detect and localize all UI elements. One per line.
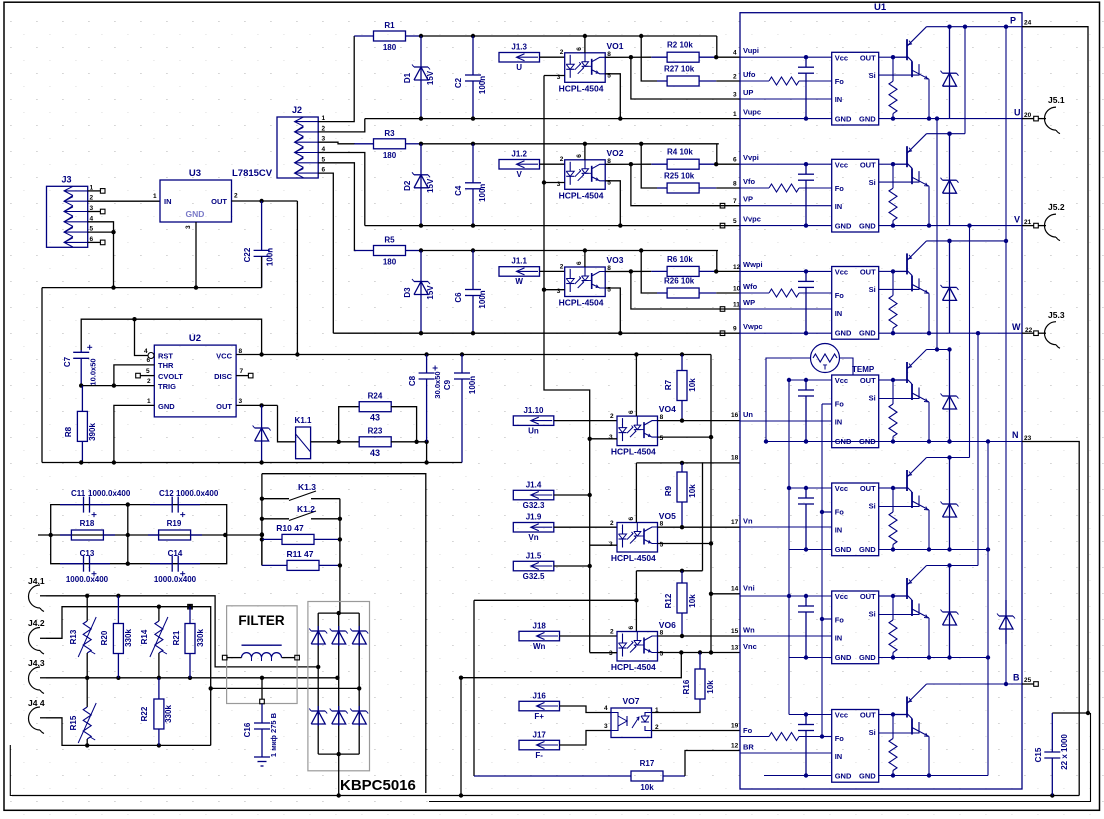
relay contact K1.3 <box>260 474 340 566</box>
wire R1 rail <box>419 34 717 38</box>
+15 chain vertical to opto pins 5 <box>709 355 713 653</box>
svg-text:180: 180 <box>383 258 397 267</box>
connector J3 <box>47 174 88 247</box>
svg-text:IN: IN <box>835 752 843 761</box>
svg-text:OUT: OUT <box>860 268 876 277</box>
svg-text:43: 43 <box>370 448 380 458</box>
svg-text:R6 10k: R6 10k <box>667 255 693 264</box>
regulator U3 L7815CV <box>153 168 273 229</box>
svg-text:Fo: Fo <box>835 508 845 517</box>
freewheel diode row W <box>941 239 959 334</box>
net labels lower rows <box>743 410 757 752</box>
svg-text:19: 19 <box>731 723 739 730</box>
wire J1.4 to chain <box>554 494 590 496</box>
svg-text:C6: C6 <box>454 292 463 303</box>
svg-text:J1.4: J1.4 <box>526 480 542 489</box>
svg-text:HCPL-4504: HCPL-4504 <box>611 447 656 457</box>
wire J3 pin2 to U3 IN <box>88 200 160 202</box>
svg-text:C22: C22 <box>243 247 252 262</box>
svg-text:10k: 10k <box>688 378 697 392</box>
svg-text:2: 2 <box>610 413 614 420</box>
svg-text:K1.3: K1.3 <box>298 482 316 492</box>
svg-text:THR: THR <box>158 361 174 370</box>
svg-text:C4: C4 <box>454 185 463 196</box>
terminal pad on U1 input line <box>720 203 725 208</box>
svg-text:IN: IN <box>835 634 843 643</box>
svg-text:R4 10k: R4 10k <box>667 148 693 157</box>
decoupling capacitor row V <box>798 164 814 225</box>
wire VO2 pin6 to rail <box>584 144 586 160</box>
driver OUT to gate row 7 (brake) <box>879 712 896 716</box>
svg-text:10k: 10k <box>688 594 697 608</box>
svg-text:R19: R19 <box>167 519 182 528</box>
svg-text:3: 3 <box>609 650 613 657</box>
svg-text:IN: IN <box>835 202 843 211</box>
svg-text:GND: GND <box>158 402 175 411</box>
svg-text:J1.2: J1.2 <box>511 150 527 159</box>
svg-text:OUT: OUT <box>211 197 227 206</box>
N chain vertical to lower driver grounds <box>986 442 990 776</box>
resistor R12 10k <box>664 571 697 636</box>
gate driver block row 5 (V low) <box>832 483 879 556</box>
connector J2 <box>277 105 318 178</box>
svg-text:100n: 100n <box>266 248 275 266</box>
svg-text:C14: C14 <box>168 549 183 558</box>
Si sense wire row W <box>879 278 919 289</box>
wire J2 pin3 to R3 <box>318 142 355 144</box>
svg-text:VO6: VO6 <box>659 620 676 630</box>
Si wire row 6 (W low) <box>879 604 919 615</box>
wire VO1 pin6 to rail <box>584 36 586 53</box>
svg-text:Vvpi: Vvpi <box>743 153 759 162</box>
wire U3 OUT to +15V node <box>232 199 298 203</box>
resistor R24 43 <box>339 392 417 442</box>
svg-text:2: 2 <box>560 263 564 270</box>
svg-text:5: 5 <box>733 218 737 225</box>
wire U3 GND pin3 to ground bus <box>195 222 197 288</box>
jumper J1.9 <box>513 513 554 543</box>
optocoupler VO5 HCPL-4504 <box>609 511 676 563</box>
freewheel diode row 5 (V low) <box>941 458 959 552</box>
driver OUT to gate row 6 (W low) <box>879 594 896 598</box>
wire J3 pin5 to ground bus <box>88 230 116 288</box>
svg-text:18: 18 <box>731 455 739 462</box>
svg-text:R25 10k: R25 10k <box>664 172 695 181</box>
terminal pad on U1 input line <box>720 331 725 336</box>
svg-text:Vfo: Vfo <box>743 177 756 186</box>
svg-text:6: 6 <box>576 47 583 51</box>
wire rail corner to R4 right <box>714 144 740 167</box>
capacitor C11 1000.0x400 <box>60 489 131 517</box>
phase output line row V <box>879 225 1022 227</box>
svg-text:J4.1: J4.1 <box>28 576 45 586</box>
svg-text:Wwpi: Wwpi <box>743 260 763 269</box>
svg-text:100n: 100n <box>468 376 477 394</box>
thermistor R13 <box>69 596 96 678</box>
wire J1.5 to chain <box>554 565 590 567</box>
svg-text:J17: J17 <box>533 730 547 739</box>
svg-text:14: 14 <box>731 586 739 593</box>
channel return bus <box>365 223 740 227</box>
svg-text:R1: R1 <box>384 21 395 30</box>
svg-text:RST: RST <box>158 352 173 361</box>
wire J2 pin6 to W channel return bus <box>318 173 333 333</box>
svg-text:P: P <box>1010 16 1016 26</box>
svg-text:Vcc: Vcc <box>835 268 848 277</box>
IGBT row V <box>893 134 929 187</box>
zener diode D1 15V <box>403 36 435 119</box>
pin 6 of J3 <box>88 236 105 245</box>
svg-text:R13: R13 <box>69 629 78 644</box>
svg-text:3: 3 <box>185 225 192 229</box>
svg-text:16: 16 <box>731 412 739 419</box>
DC minus bus wire along bottom <box>12 793 1079 797</box>
svg-text:C16: C16 <box>243 722 252 737</box>
emitter wire row 6 (W low) <box>927 618 931 660</box>
svg-text:C7: C7 <box>63 356 72 367</box>
B rail wire <box>927 673 1039 687</box>
driver row W input wires <box>740 269 832 335</box>
svg-text:4: 4 <box>733 50 737 57</box>
svg-text:Un: Un <box>743 410 753 419</box>
emitter wire row V <box>927 186 931 228</box>
resistor R19 <box>148 519 202 540</box>
svg-text:R22: R22 <box>140 706 149 721</box>
bridge column 2 diodes <box>338 613 340 754</box>
wire left loop to VO6 pin6 <box>474 571 636 632</box>
freewheel diode row V <box>941 132 959 226</box>
wire J2 pin1 to R1 <box>318 36 354 122</box>
brake freewheel diode <box>997 600 1015 644</box>
net labels row V <box>743 153 761 224</box>
svg-text:R2 10k: R2 10k <box>667 41 693 50</box>
optocoupler VO6 HCPL-4504 <box>609 620 676 672</box>
net labels row U <box>743 46 761 117</box>
resistor R18 <box>60 519 115 540</box>
svg-text:HCPL-4504: HCPL-4504 <box>559 190 604 200</box>
optocoupler VO4 HCPL-4504 <box>609 404 676 457</box>
svg-text:R27 10k: R27 10k <box>664 65 695 74</box>
svg-text:2: 2 <box>560 156 564 163</box>
svg-text:T: T <box>823 365 828 372</box>
driver OUT to IGBT gate row W <box>879 269 896 273</box>
svg-text:R26 10k: R26 10k <box>664 277 695 286</box>
svg-text:R3: R3 <box>384 129 395 138</box>
svg-text:CVOLT: CVOLT <box>158 372 183 381</box>
svg-text:J1.9: J1.9 <box>526 513 542 522</box>
svg-text:N: N <box>1012 430 1019 440</box>
wire R25 chain <box>641 144 740 188</box>
svg-text:U1: U1 <box>874 2 887 13</box>
svg-text:1: 1 <box>147 398 151 405</box>
svg-text:D3: D3 <box>403 287 412 298</box>
wire VO1 pin8 to R2 <box>605 55 651 59</box>
P feed to W top IGBT and brake diode <box>927 27 1009 684</box>
svg-text:C13: C13 <box>80 549 95 558</box>
svg-text:C12: C12 <box>159 489 174 498</box>
wire J1.10 to VO4 <box>554 413 617 421</box>
svg-text:IN: IN <box>164 197 172 206</box>
pin 3 of J3 <box>88 205 105 214</box>
resistor R9 10k <box>664 463 697 527</box>
svg-text:K1.1: K1.1 <box>295 416 312 425</box>
svg-text:F+: F+ <box>534 712 544 721</box>
svg-text:GND: GND <box>859 221 876 230</box>
top wire with C11 C12 <box>51 502 227 535</box>
svg-text:24: 24 <box>1024 20 1032 27</box>
wire J16 to VO7 pin4 <box>559 705 611 713</box>
thermistor TEMP <box>811 344 875 375</box>
wire U2 OUT pin3 <box>236 403 277 407</box>
svg-text:5: 5 <box>660 435 664 442</box>
decoupling capacitor row U <box>798 57 814 118</box>
Si wire row 4 (U low) <box>879 388 919 399</box>
gate resistor row V <box>889 164 897 228</box>
emitter wire row 5 (V low) <box>927 510 931 552</box>
optocoupler VO3 HCPL-4504 <box>557 255 624 308</box>
svg-text:J5.3: J5.3 <box>1048 310 1065 320</box>
svg-text:R16: R16 <box>682 679 691 694</box>
svg-text:GND: GND <box>186 209 205 219</box>
optocoupler VO7 <box>611 696 659 738</box>
rail to R12 top <box>634 569 702 603</box>
wire VO4 pin5 chain <box>658 435 714 439</box>
wire VO6 pin3 <box>590 652 617 654</box>
ground symbol under C16 <box>254 757 270 766</box>
svg-text:OUT: OUT <box>860 592 876 601</box>
capacitor C2 100n <box>454 36 487 119</box>
svg-text:R5: R5 <box>384 236 395 245</box>
driver OUT to gate row 4 (U low) <box>879 378 896 382</box>
wire VO2 pin3 to opto ground chain <box>544 182 565 184</box>
svg-text:J5.2: J5.2 <box>1048 202 1065 212</box>
resistor R6 10k <box>651 255 716 277</box>
wire R27 chain <box>641 36 740 81</box>
svg-text:Fo: Fo <box>835 77 845 86</box>
svg-text:J1.10: J1.10 <box>523 406 544 415</box>
resistor R4 10k <box>651 148 716 170</box>
svg-text:6: 6 <box>576 261 583 265</box>
freewheel diode row 6 (W low) <box>941 566 959 660</box>
wire J1.1 to VO3 pin2 <box>540 263 565 271</box>
svg-text:VO3: VO3 <box>607 255 624 265</box>
svg-text:2: 2 <box>147 378 151 385</box>
svg-text:R21: R21 <box>172 630 181 645</box>
svg-text:GND: GND <box>835 221 852 230</box>
gate driver block row 7 (brake) <box>832 710 879 783</box>
svg-text:R20: R20 <box>100 630 109 645</box>
svg-text:43: 43 <box>370 413 380 423</box>
svg-text:R14: R14 <box>140 629 149 644</box>
wire U2 THR <box>114 365 154 386</box>
svg-text:J4.3: J4.3 <box>28 658 45 668</box>
svg-text:R17: R17 <box>640 759 655 768</box>
pin 5 of J3 <box>90 226 94 233</box>
svg-text:100n: 100n <box>478 76 487 94</box>
svg-text:Si: Si <box>869 394 876 403</box>
svg-text:GND: GND <box>835 545 852 554</box>
connector J5.2 <box>1038 202 1065 241</box>
rail to R9 top <box>636 455 740 571</box>
svg-text:B: B <box>1013 673 1020 683</box>
svg-text:6: 6 <box>628 517 635 521</box>
wire R17 to U1 pin12 <box>685 743 740 777</box>
FILTER annotation box <box>227 606 298 704</box>
resistor R3 180 <box>354 129 421 160</box>
pin 2 of J2 <box>322 125 326 132</box>
svg-text:OUT: OUT <box>860 160 876 169</box>
pad on J4.2 line <box>188 604 193 609</box>
svg-text:6: 6 <box>628 626 635 630</box>
svg-text:F-: F- <box>535 751 543 760</box>
U phase bus to lower IGBT <box>927 116 952 351</box>
svg-text:4: 4 <box>604 705 608 712</box>
resistor R21 330k <box>172 607 205 678</box>
svg-text:W: W <box>515 277 523 286</box>
wire J1.3 to VO1 pin2 <box>540 49 565 57</box>
gate resistor row U <box>889 57 897 121</box>
thermistor R14 <box>140 607 168 678</box>
svg-text:G32.3: G32.3 <box>523 501 545 510</box>
svg-text:DISC: DISC <box>214 372 233 381</box>
gate driver block row 4 (U low) <box>832 375 879 448</box>
svg-text:1000.0x400: 1000.0x400 <box>66 575 109 584</box>
svg-text:G32.5: G32.5 <box>523 572 545 581</box>
svg-text:R18: R18 <box>80 519 95 528</box>
capacitor C8 30.0x50 <box>408 355 442 463</box>
Fo series resistor row W <box>769 289 799 297</box>
svg-text:Wfo: Wfo <box>743 282 758 291</box>
svg-text:WP: WP <box>743 298 755 307</box>
emitter wire row 7 (brake) <box>927 737 931 778</box>
svg-text:7: 7 <box>733 198 737 205</box>
svg-text:15: 15 <box>731 628 739 635</box>
wire J3 pin4 <box>88 222 114 232</box>
svg-text:2: 2 <box>733 74 737 81</box>
bridge bottom bus <box>318 752 359 796</box>
svg-text:C11: C11 <box>71 489 86 498</box>
svg-text:Vcc: Vcc <box>835 376 848 385</box>
zener diode at U2 OUT <box>253 405 271 462</box>
capacitor C6 100n <box>454 251 487 334</box>
ground bus wire under U3 <box>42 256 262 289</box>
svg-text:GND: GND <box>835 329 852 338</box>
optocoupler VO2 HCPL-4504 <box>557 148 624 201</box>
wire rail corner to R6 right <box>714 251 740 274</box>
svg-text:VO4: VO4 <box>659 404 676 414</box>
connector J4.3 <box>28 658 46 694</box>
wire J1.9 to VO5 pin2 <box>554 520 617 527</box>
driver row V input wires <box>740 162 832 228</box>
svg-text:R15: R15 <box>69 715 78 730</box>
wire J4.3 phase to bridge AC2 <box>46 676 340 680</box>
svg-text:6: 6 <box>733 157 737 164</box>
svg-text:V: V <box>517 170 523 179</box>
svg-text:Wn: Wn <box>533 642 546 651</box>
svg-text:OUT: OUT <box>860 484 876 493</box>
wire VO5 pin3 <box>590 544 617 546</box>
svg-text:Vcc: Vcc <box>835 160 848 169</box>
emitter wire row W <box>927 293 931 335</box>
jumper J16 <box>519 691 560 721</box>
driver input wires row 7 (brake) <box>740 712 832 777</box>
svg-text:3: 3 <box>604 723 608 730</box>
capacitor C22 100n <box>243 201 275 288</box>
wire rail corner to R2 right <box>714 36 740 59</box>
svg-text:Vcc: Vcc <box>835 711 848 720</box>
svg-text:3: 3 <box>733 92 737 99</box>
jumper J1.3 <box>499 43 540 73</box>
svg-text:Un: Un <box>528 426 539 435</box>
FILTER terminal pads <box>222 655 299 660</box>
svg-text:Vcc: Vcc <box>835 592 848 601</box>
svg-text:U3: U3 <box>189 168 201 179</box>
svg-text:9: 9 <box>733 326 737 333</box>
capacitor C15 22x1000 <box>1034 711 1090 796</box>
wire VO6 pin5 to U1 pin13 <box>658 645 741 655</box>
wire R26 chain <box>641 251 740 294</box>
capacitor C16 1uF 275V <box>243 678 278 757</box>
wire VO2 pin5 to return bus <box>605 181 620 226</box>
freewheel diode row U <box>941 25 959 119</box>
jumper J1.4 <box>513 480 554 510</box>
svg-text:GND: GND <box>835 114 852 123</box>
wire J2 pin4 to V channel return bus <box>318 153 365 226</box>
driver ground line row 6 (W low) <box>879 657 988 659</box>
optocoupler VO1 HCPL-4504 <box>557 41 624 94</box>
capacitor C12 1000.0x400 <box>150 489 219 517</box>
svg-text:Ufo: Ufo <box>743 70 756 79</box>
svg-text:330k: 330k <box>124 629 133 647</box>
P rail wire <box>927 16 1089 714</box>
jumper J1.1 <box>499 257 540 287</box>
svg-text:Vupi: Vupi <box>743 46 759 55</box>
svg-text:J1.1: J1.1 <box>511 257 527 266</box>
P feed to V top IGBT <box>927 27 966 136</box>
svg-text:21: 21 <box>1024 219 1032 226</box>
driver ground line row 5 (V low) <box>879 549 988 551</box>
svg-text:Vcc: Vcc <box>835 53 848 62</box>
wire U2 TRIG <box>79 383 154 387</box>
IGBT row W <box>893 241 929 294</box>
Vcc chain vertical for lower drivers <box>787 378 806 715</box>
svg-text:OUT: OUT <box>216 402 232 411</box>
svg-text:R10 47: R10 47 <box>276 523 304 533</box>
svg-text:Si: Si <box>869 285 876 294</box>
pin 1 of J3 <box>88 184 105 193</box>
gate resistor row 4 (U low) <box>889 380 897 444</box>
svg-text:R12: R12 <box>664 593 673 608</box>
driver input wires row 6 (W low) <box>740 594 832 660</box>
V phase bus to lower IGBT <box>927 223 972 459</box>
svg-text:J18: J18 <box>533 621 547 630</box>
wire J4.1 phase <box>46 594 320 670</box>
jumper J17 <box>519 730 560 760</box>
driver ground line row 4 (U low) <box>879 441 1022 443</box>
bridge rectifier top bus <box>318 611 359 615</box>
Si wire row 7 (brake) <box>879 722 919 733</box>
svg-text:HCPL-4504: HCPL-4504 <box>611 662 656 672</box>
driver OUT to IGBT gate row U <box>879 55 896 59</box>
svg-text:Fo: Fo <box>835 291 845 300</box>
svg-text:1000.0x400: 1000.0x400 <box>176 489 219 498</box>
svg-text:IN: IN <box>835 526 843 535</box>
Fo series resistor row V <box>769 184 799 192</box>
resistor R26 10k <box>657 277 716 299</box>
svg-text:15V: 15V <box>426 178 435 193</box>
W output pad and pin 22 <box>1012 322 1038 336</box>
resistor R7 10k <box>664 355 697 421</box>
